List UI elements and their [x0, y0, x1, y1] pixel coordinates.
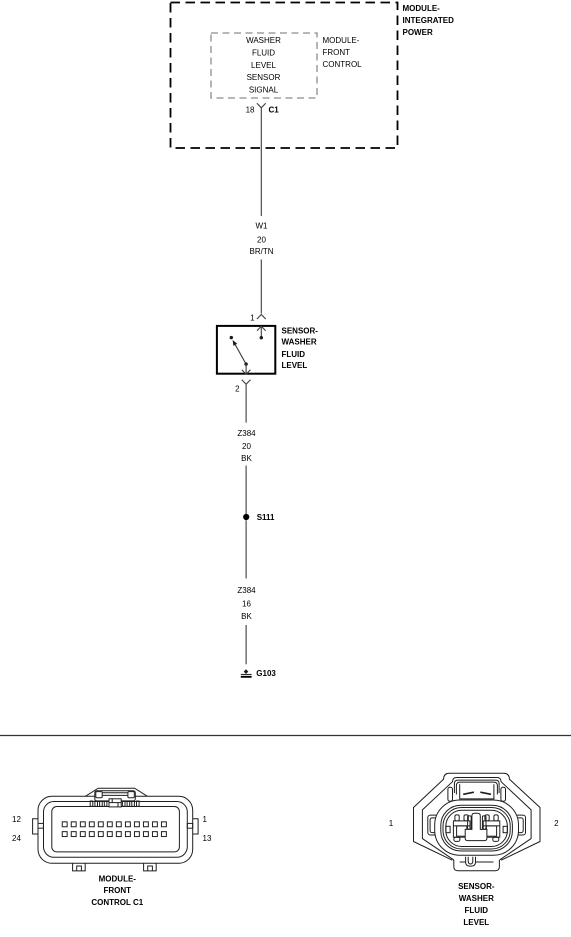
svg-text:16: 16 [242, 599, 251, 608]
C1 latch left lug [96, 792, 102, 798]
sensor seal ring 2 [441, 805, 513, 851]
splice S111 [243, 514, 249, 520]
sensor latch side rails [448, 787, 453, 801]
C1 latch band lines [102, 792, 128, 794]
C1 latch center block [109, 799, 121, 807]
svg-text:1: 1 [203, 815, 208, 824]
svg-text:FRONT: FRONT [323, 48, 351, 57]
sensor internal pin 2 arrow [242, 364, 251, 374]
ground G103 symbol [241, 669, 252, 677]
svg-text:FLUID: FLUID [465, 906, 489, 915]
module-front control label [323, 36, 363, 69]
inline connector fork at sensor pin 2 [242, 380, 251, 385]
sensor left wall key [446, 826, 450, 832]
svg-text:FRONT: FRONT [104, 886, 132, 895]
washer fluid level sensor signal label [246, 36, 281, 94]
sensor latch arm outer [454, 780, 499, 793]
wire W1 upper segment [260, 108, 262, 216]
svg-text:CONTROL: CONTROL [323, 60, 363, 69]
svg-text:Z384: Z384 [237, 586, 256, 595]
sensor caption [458, 882, 495, 927]
wire Z384 20 label [237, 429, 256, 463]
C1 pin cavities row 1 [62, 822, 166, 827]
inline connector chevron at sensor pin 1 [257, 315, 266, 320]
svg-text:SENSOR-: SENSOR- [458, 882, 495, 891]
sensor latch slot right [480, 792, 491, 794]
connector view: module-front control C1 [33, 788, 199, 871]
svg-text:MODULE-: MODULE- [403, 4, 441, 13]
svg-text:LEVEL: LEVEL [282, 361, 308, 370]
sensor terminal 2 cavity [483, 815, 500, 842]
svg-text:CONTROL C1: CONTROL C1 [91, 898, 143, 907]
C1 bottom tab left [73, 863, 86, 871]
connector C1 fork symbol [257, 103, 266, 108]
sensor bottom notch [466, 857, 476, 866]
sensor right wall key [503, 826, 507, 832]
sensor center key [465, 813, 487, 840]
C1 inner shell [44, 802, 188, 858]
svg-text:2: 2 [554, 819, 559, 828]
svg-text:WASHER: WASHER [282, 338, 317, 347]
svg-text:2: 2 [235, 385, 240, 394]
svg-text:WASHER: WASHER [459, 894, 494, 903]
sensor bottom tab [454, 860, 500, 871]
sensor-washer fluid level box [217, 326, 275, 374]
C1 outer shell [38, 796, 193, 863]
svg-text:BK: BK [241, 454, 252, 463]
C1 latch inner rect [95, 791, 136, 801]
svg-text:FLUID: FLUID [252, 49, 275, 58]
svg-text:LEVEL: LEVEL [463, 918, 489, 927]
svg-text:SENSOR: SENSOR [247, 73, 281, 82]
svg-text:FLUID: FLUID [282, 350, 306, 359]
C1 caption [91, 875, 143, 908]
wire Z384 16 label [237, 586, 256, 621]
svg-text:20: 20 [257, 236, 266, 245]
C1 bottom tab right [144, 863, 157, 871]
C1 right wing [193, 819, 198, 834]
separator line [0, 735, 571, 737]
svg-text:WASHER: WASHER [246, 36, 281, 45]
sensor lever arrow [235, 345, 246, 364]
C1 latch teeth [90, 801, 139, 806]
svg-text:24: 24 [12, 834, 21, 843]
svg-text:MODULE-: MODULE- [323, 36, 360, 45]
svg-text:LEVEL: LEVEL [251, 61, 276, 70]
svg-text:13: 13 [203, 834, 212, 843]
svg-text:18: 18 [246, 105, 255, 114]
sensor body inner octagon [422, 778, 531, 860]
svg-text:SENSOR-: SENSOR- [282, 326, 319, 335]
svg-text:12: 12 [12, 815, 21, 824]
svg-text:INTEGRATED: INTEGRATED [403, 16, 455, 25]
svg-text:S111: S111 [257, 513, 275, 522]
svg-text:BR/TN: BR/TN [250, 247, 274, 256]
sensor left ear [428, 815, 438, 835]
C1 pin area [52, 807, 180, 852]
module-integrated power label [403, 4, 455, 37]
sensor body outer octagon [414, 773, 541, 860]
sensor seal ring 1 [435, 800, 519, 855]
module-integrated power box [171, 3, 398, 149]
sensor right ear [515, 815, 525, 835]
wire W1 label [250, 221, 274, 256]
sensor cavity ring 4 [446, 810, 508, 846]
washer fluid level sensor signal box [211, 33, 317, 98]
svg-text:20: 20 [242, 442, 251, 451]
connector view: sensor-washer fluid level [414, 773, 541, 870]
sensor internal pin 1 arrow [257, 326, 266, 337]
wire Z384 16 upper segment [245, 520, 247, 578]
sensor latch arm inner [456, 782, 497, 794]
C1 latch right lug [128, 792, 134, 798]
wire Z384 20 upper segment [245, 384, 247, 422]
wire Z384 20 lower segment [245, 466, 247, 514]
wire W1 lower segment [260, 260, 262, 314]
svg-text:MODULE-: MODULE- [99, 875, 137, 884]
sensor-washer fluid level label [282, 326, 319, 370]
svg-text:G103: G103 [256, 669, 276, 678]
C1 pin cavities row 2 [62, 832, 166, 837]
svg-text:SIGNAL: SIGNAL [249, 85, 279, 94]
sensor latch cavity [460, 784, 494, 799]
svg-text:POWER: POWER [403, 28, 433, 37]
wire Z384 16 lower segment [245, 625, 247, 664]
sensor seal ring 3 [443, 808, 510, 850]
svg-text:1: 1 [389, 819, 394, 828]
svg-text:C1: C1 [269, 105, 280, 114]
sensor terminal 1 cavity [453, 815, 470, 842]
C1 left wing [33, 819, 38, 834]
svg-text:W1: W1 [256, 221, 269, 230]
sensor center key flanks [468, 816, 472, 829]
svg-text:Z384: Z384 [237, 429, 256, 438]
svg-text:BK: BK [241, 612, 252, 621]
sensor latch slot left [463, 792, 474, 794]
svg-text:1: 1 [250, 313, 255, 322]
C1 latch trapezoid [85, 788, 147, 796]
